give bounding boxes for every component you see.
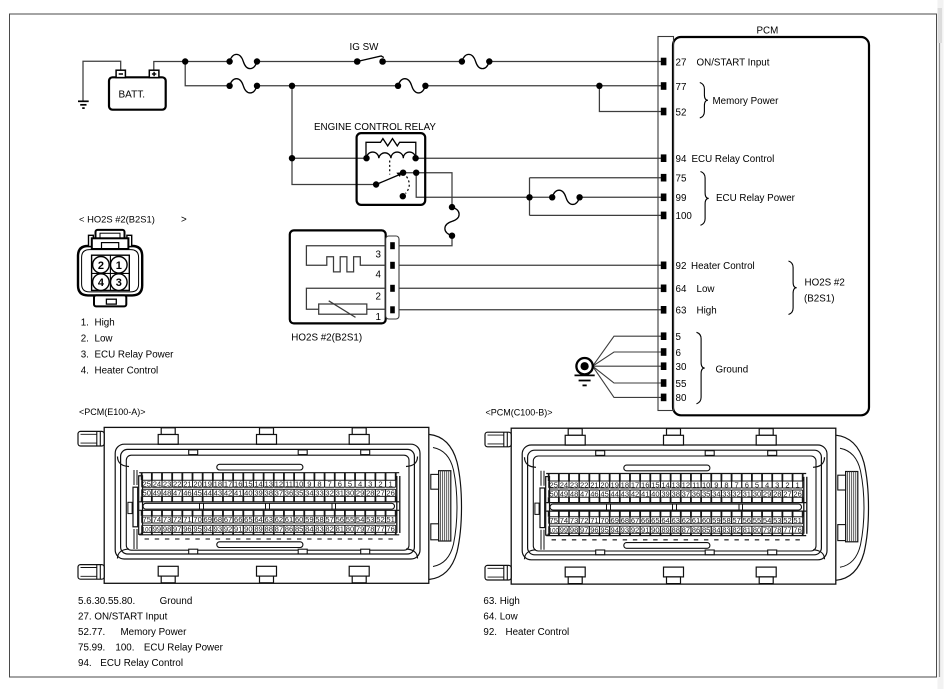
pin number band rows 75-51 / 100-76 [139,509,399,511]
svg-text:45: 45 [193,489,201,498]
svg-text:41: 41 [234,489,242,498]
svg-text:(B2S1): (B2S1) [804,294,835,305]
resistor (relay suppression) [366,139,416,159]
bracket ground group [697,332,705,404]
svg-text:64: 64 [676,284,687,295]
svg-text:84: 84 [305,525,313,534]
svg-text:9: 9 [307,480,311,489]
svg-text:5: 5 [676,332,682,343]
svg-text:73: 73 [163,515,171,524]
fuse (battery top row) [226,54,260,68]
svg-text:26: 26 [386,489,394,498]
svg-text:52: 52 [376,515,384,524]
svg-text:46: 46 [183,489,191,498]
right keying bars [396,476,398,533]
node bus junction at second row [289,83,295,89]
wire relay coil to PCM pin 94 [416,157,661,159]
svg-text:42: 42 [224,489,232,498]
svg-text:High: High [697,306,717,317]
svg-text:PCM: PCM [757,25,779,36]
svg-text:Heater Control: Heater Control [691,261,755,272]
svg-text:52: 52 [676,107,687,118]
svg-text:93: 93 [214,525,222,534]
bottom latch bar [217,542,303,548]
svg-text:40: 40 [244,489,252,498]
svg-text:ENGINE CONTROL RELAY: ENGINE CONTROL RELAY [314,122,436,133]
fuse (IG SW row) [459,54,493,68]
svg-text:76: 76 [386,525,394,534]
connector cavity grid [92,255,130,290]
connector body [78,246,142,295]
svg-text:56: 56 [336,515,344,524]
svg-text:2.: 2. [81,333,89,344]
svg-text:62: 62 [275,515,283,524]
svg-text:37: 37 [275,489,283,498]
svg-text:100: 100 [142,528,153,534]
inner frame outer [115,444,420,559]
svg-text:27: 27 [376,489,384,498]
pin number band rows 25-1 / 50-26 [139,472,399,474]
wire IG SW to fuse [383,61,462,63]
svg-text:94.: 94. [78,658,92,669]
svg-text:ECU Relay Control: ECU Relay Control [692,154,775,165]
svg-text:68: 68 [214,515,222,524]
svg-text:HO2S #2: HO2S #2 [805,278,845,289]
pin 64 terminal [661,285,667,293]
svg-text:4: 4 [376,270,382,281]
svg-text:92: 92 [676,261,687,272]
svg-text:33: 33 [315,489,323,498]
svg-text:91: 91 [234,525,242,534]
PCM connector strip [658,37,674,411]
svg-text:96: 96 [183,525,191,534]
svg-text:83: 83 [315,525,323,534]
svg-text:3.: 3. [81,350,89,361]
centre rail [143,503,395,510]
wire vertical bus to relay (coil + common) [292,86,376,185]
connector cavity 4 [93,274,110,291]
corner hooks left [118,457,130,467]
wire sensor pin 4 to PCM pin 92 Heater Control [396,264,662,266]
PCM box [673,37,869,415]
wire sensor pin 1 to PCM pin 63 High [396,309,662,311]
svg-text:86: 86 [285,525,293,534]
sensor pin 2 terminal [390,285,395,292]
svg-text:48: 48 [163,489,171,498]
pin 52 terminal [661,108,667,116]
inner frame middle [121,449,415,554]
svg-text:6: 6 [676,348,682,359]
svg-text:17: 17 [224,480,232,489]
svg-text:12: 12 [275,480,283,489]
connector cavity 1 [111,257,128,274]
sensor pin 1 terminal [390,306,395,313]
svg-text:57: 57 [325,515,333,524]
svg-text:High: High [95,317,115,328]
node bus-coil junction [289,155,295,161]
svg-text:63: 63 [264,515,272,524]
sensor connector strip [386,236,399,319]
svg-text:71: 71 [183,515,191,524]
HO2S #2 sensor box [290,230,386,323]
svg-text:65: 65 [244,515,252,524]
svg-text:80: 80 [676,393,687,404]
sensing element (thermistor) [306,288,385,309]
relay switch arm and contacts [373,170,420,200]
mounting stud top-left [78,431,104,446]
svg-text:95: 95 [193,525,201,534]
wire battery branch down to second feed row [185,62,229,86]
svg-text:5.6.30.55.80.: 5.6.30.55.80. [78,596,135,607]
svg-text:ECU Relay Control: ECU Relay Control [100,658,183,669]
svg-text:94: 94 [676,154,687,165]
svg-text:28: 28 [366,489,374,498]
svg-text:81: 81 [336,525,344,534]
heater element (square wave) [306,246,385,272]
wire fuse to second fuse [258,85,398,87]
svg-text:43: 43 [214,489,222,498]
pin 100 terminal [661,212,667,220]
pin 80 terminal [661,394,667,402]
pin 92 terminal [661,262,667,270]
pin 75 terminal [661,174,667,182]
svg-text:19: 19 [204,480,212,489]
svg-text:10: 10 [295,480,303,489]
svg-text:Heater Control: Heater Control [506,627,570,638]
svg-text:44: 44 [204,489,212,498]
svg-text:99: 99 [676,193,687,204]
svg-text:27. ON/START Input: 27. ON/START Input [78,612,168,623]
svg-text:Ground: Ground [160,596,193,607]
svg-text:2: 2 [376,291,381,302]
svg-text:78: 78 [366,525,374,534]
svg-text:53: 53 [366,515,374,524]
wire bus to PCM pin 100 [530,214,662,216]
svg-text:5: 5 [348,480,352,489]
svg-text:18: 18 [214,480,222,489]
svg-text:1: 1 [116,260,122,272]
svg-text:20: 20 [193,480,201,489]
svg-text:66: 66 [234,515,242,524]
svg-text:97: 97 [173,525,181,534]
fuse (battery second row) [226,79,260,93]
svg-text:52.77.: 52.77. [78,627,105,638]
svg-text:< HO2S #2(B2S1): < HO2S #2(B2S1) [79,213,155,224]
wire bus to PCM pin 75 [530,177,662,179]
svg-text:2: 2 [98,260,104,272]
pin 6 terminal [661,348,667,356]
svg-text:59: 59 [305,515,313,524]
svg-text:IG SW: IG SW [350,42,380,53]
svg-text:4.: 4. [81,366,89,377]
ground symbol with circle (PCM ground fan) [575,358,595,385]
svg-text:51: 51 [386,515,394,524]
fuse (ECU relay power row) [549,190,583,204]
node junction to pin 52 branch [596,83,602,89]
mounting stud bottom-left [78,565,104,580]
sensor pin 3 terminal [390,242,395,249]
svg-text:BATT.: BATT. [119,89,145,100]
wire battery negative to chassis ground [83,61,121,101]
svg-text:ON/START Input: ON/START Input [697,57,770,68]
svg-text:3: 3 [376,249,382,260]
svg-text:100.: 100. [115,643,134,654]
svg-text:63. High: 63. High [483,596,520,607]
wire bus to fuse to PCM pin 99 [530,196,553,198]
sensor pin 4 terminal [390,262,395,269]
svg-text:14: 14 [254,480,262,489]
svg-text:74: 74 [153,515,161,524]
svg-text:3: 3 [116,277,122,289]
svg-text:>: > [181,214,187,225]
frame edge lugs [189,450,198,455]
svg-text:1.: 1. [81,317,89,328]
svg-text:64: 64 [254,515,262,524]
ECU relay power bus vertical [529,178,531,216]
bracket ECU relay power [701,172,709,226]
svg-text:94: 94 [204,525,212,534]
svg-text:92.: 92. [483,627,497,638]
svg-text:30: 30 [346,489,354,498]
pin 77 terminal [661,82,667,90]
svg-text:75: 75 [143,515,151,524]
svg-text:38: 38 [264,489,272,498]
svg-text:31: 31 [336,489,344,498]
housing clip (bottom) [257,566,277,583]
svg-text:34: 34 [305,489,313,498]
svg-text:Memory Power: Memory Power [713,96,780,107]
svg-text:16: 16 [234,480,242,489]
svg-text:15: 15 [244,480,252,489]
housing clip (top) [158,428,178,445]
pin 63 terminal [661,306,667,314]
bracket HO2S #2 (B2S1) [789,261,797,315]
pin 30 terminal [661,362,667,370]
svg-text:49: 49 [153,489,161,498]
svg-text:77: 77 [676,82,687,93]
svg-text:3: 3 [368,480,372,489]
ground chassis (battery) [78,101,89,108]
corner hooks right [406,457,418,467]
bottom legend left [78,596,224,669]
svg-text:67: 67 [224,515,232,524]
svg-text:100: 100 [676,211,693,222]
pin 99 terminal [661,194,667,202]
svg-text:99: 99 [153,525,161,534]
svg-text:61: 61 [285,515,293,524]
bracket memory power [700,83,708,119]
connector cavity 2 [93,257,110,274]
bottom legend right [483,596,569,638]
svg-text:36: 36 [285,489,293,498]
svg-text:39: 39 [254,489,262,498]
fuse (memory power row) [395,79,429,93]
svg-text:79: 79 [356,525,364,534]
housing clip (bottom) [158,566,178,583]
scrollbar [938,0,944,689]
battery BATT. [109,70,166,110]
svg-text:24: 24 [153,480,161,489]
svg-text:30: 30 [676,362,687,373]
connector drawing PCM(C100-B) [485,428,869,584]
svg-text:ECU Relay Power: ECU Relay Power [716,193,796,204]
pin 55 terminal [661,379,667,387]
svg-text:1: 1 [389,480,393,489]
svg-text:54: 54 [356,515,364,524]
svg-text:2: 2 [378,480,382,489]
svg-text:55: 55 [346,515,354,524]
wire sensor pin 2 to PCM pin 64 Low [396,287,662,289]
wire relay contact to ECU relay power bus [416,173,529,198]
svg-text:80: 80 [346,525,354,534]
svg-text:Low: Low [95,333,114,344]
relay box [357,133,426,205]
connector cavity 3 [111,274,128,291]
svg-text:88: 88 [264,525,272,534]
svg-text:HO2S #2(B2S1): HO2S #2(B2S1) [291,333,362,344]
svg-text:4: 4 [98,277,105,289]
svg-text:47: 47 [173,489,181,498]
svg-text:8: 8 [317,480,321,489]
svg-text:27: 27 [676,57,687,68]
svg-text:58: 58 [315,515,323,524]
svg-text:ECU Relay Power: ECU Relay Power [144,643,224,654]
pin 5 terminal [661,332,667,340]
svg-text:89: 89 [254,525,262,534]
svg-text:25: 25 [143,480,151,489]
right end cap [429,434,462,579]
wire battery positive feed (top row to fuse) [154,62,230,71]
svg-text:32: 32 [325,489,333,498]
svg-text:82: 82 [325,525,333,534]
svg-text:Heater Control: Heater Control [95,366,159,377]
connector top latch [89,230,132,249]
node ECU relay power bus junction [526,194,532,200]
svg-text:13: 13 [264,480,272,489]
svg-text:50: 50 [143,489,151,498]
svg-text:23: 23 [163,480,171,489]
svg-text:63: 63 [676,306,687,317]
top latch bar [217,464,303,470]
wire fuse to IG SW [258,61,358,63]
svg-text:<PCM(C100-B)>: <PCM(C100-B)> [486,408,553,418]
svg-text:55: 55 [676,379,687,390]
relay actuation dashed link [389,161,391,175]
inner frame inner [126,455,409,550]
svg-text:85: 85 [295,525,303,534]
svg-text:1: 1 [376,312,381,323]
ground fan wires to PCM pins 5,6,30,55,80 [593,336,661,366]
svg-text:Memory Power: Memory Power [121,627,188,638]
wire branch down to PCM pin 52 [599,86,661,112]
connector drawing PCM(E100-A) [78,427,462,583]
svg-text:21: 21 [183,480,191,489]
svg-text:92: 92 [224,525,232,534]
svg-text:Ground: Ground [716,365,749,376]
wire second-row fuse to PCM pin 77 [425,85,661,87]
svg-text:7: 7 [328,480,332,489]
wire fuse to PCM pin 27 [489,61,661,63]
svg-text:69: 69 [204,515,212,524]
pin 94 terminal [661,154,667,162]
connector bottom tab [94,295,126,306]
svg-text:75: 75 [676,174,687,185]
inductor relay coil [367,152,416,158]
left keying bars [128,470,143,549]
svg-text:35: 35 [295,489,303,498]
switch IG SW [350,42,386,65]
svg-text:77: 77 [376,525,384,534]
svg-text:11: 11 [285,480,293,489]
svg-text:<PCM(E100-A)>: <PCM(E100-A)> [79,407,146,417]
fuse (heater supply, vertical) [445,204,459,239]
svg-text:75.99.: 75.99. [78,643,105,654]
svg-text:29: 29 [356,489,364,498]
svg-text:4: 4 [358,480,362,489]
connector outer housing [104,427,429,583]
svg-text:Low: Low [697,284,716,295]
svg-text:90: 90 [244,525,252,534]
svg-text:6: 6 [338,480,342,489]
housing clip (top) [257,428,277,445]
housing clip (bottom) [349,566,369,583]
svg-text:64. Low: 64. Low [483,612,518,623]
svg-text:72: 72 [173,515,181,524]
svg-text:70: 70 [193,515,201,524]
svg-text:ECU Relay Power: ECU Relay Power [95,350,175,361]
pin 27 terminal [661,58,667,66]
svg-text:60: 60 [295,515,303,524]
wire relay contact to vertical fuse to sensor pin 3 [403,173,452,207]
svg-text:87: 87 [275,525,283,534]
node battery positive junction [182,58,188,64]
svg-text:98: 98 [163,525,171,534]
svg-text:22: 22 [173,480,181,489]
housing clip (top) [349,428,369,445]
